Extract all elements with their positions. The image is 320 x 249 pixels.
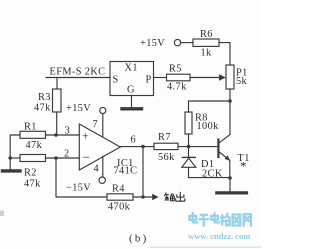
svg-text:+15V: +15V bbox=[140, 38, 165, 49]
svg-text:3: 3 bbox=[65, 126, 71, 137]
svg-text:R6: R6 bbox=[200, 29, 213, 40]
svg-text:R5: R5 bbox=[169, 64, 182, 75]
svg-text:X1: X1 bbox=[125, 63, 138, 74]
svg-text:1k: 1k bbox=[201, 48, 213, 59]
svg-text:S: S bbox=[113, 75, 119, 86]
svg-text:R2: R2 bbox=[24, 168, 37, 179]
svg-text:−: − bbox=[83, 150, 90, 165]
svg-text:4: 4 bbox=[94, 164, 100, 175]
svg-text:7: 7 bbox=[93, 119, 99, 130]
svg-text:4.7k: 4.7k bbox=[167, 82, 187, 93]
svg-text:+15V: +15V bbox=[66, 103, 91, 114]
svg-text:R7: R7 bbox=[158, 132, 171, 143]
svg-text:470k: 470k bbox=[108, 202, 131, 213]
svg-text:R3: R3 bbox=[38, 92, 51, 103]
svg-text:100k: 100k bbox=[197, 121, 220, 132]
svg-text:−15V: −15V bbox=[66, 183, 91, 194]
svg-text:2: 2 bbox=[64, 149, 70, 160]
svg-text:6: 6 bbox=[131, 135, 137, 146]
svg-text:G: G bbox=[127, 85, 135, 96]
svg-text:56k: 56k bbox=[158, 152, 175, 163]
svg-text:(b): (b) bbox=[129, 233, 148, 245]
svg-text:2CK: 2CK bbox=[202, 169, 223, 180]
svg-text:47k: 47k bbox=[26, 140, 43, 151]
svg-text:+: + bbox=[82, 129, 89, 143]
svg-text:R4: R4 bbox=[112, 184, 125, 195]
svg-text:P: P bbox=[146, 75, 152, 86]
svg-text:741C: 741C bbox=[114, 166, 138, 177]
svg-text:47k: 47k bbox=[34, 103, 51, 114]
svg-text:47k: 47k bbox=[24, 179, 41, 190]
svg-text:*: * bbox=[240, 159, 247, 174]
svg-text:EFM-S 2KC: EFM-S 2KC bbox=[50, 67, 106, 78]
svg-text:www. cndzz. com: www. cndzz. com bbox=[188, 231, 250, 241]
svg-text:5k: 5k bbox=[236, 76, 248, 87]
svg-text:R1: R1 bbox=[24, 122, 37, 133]
